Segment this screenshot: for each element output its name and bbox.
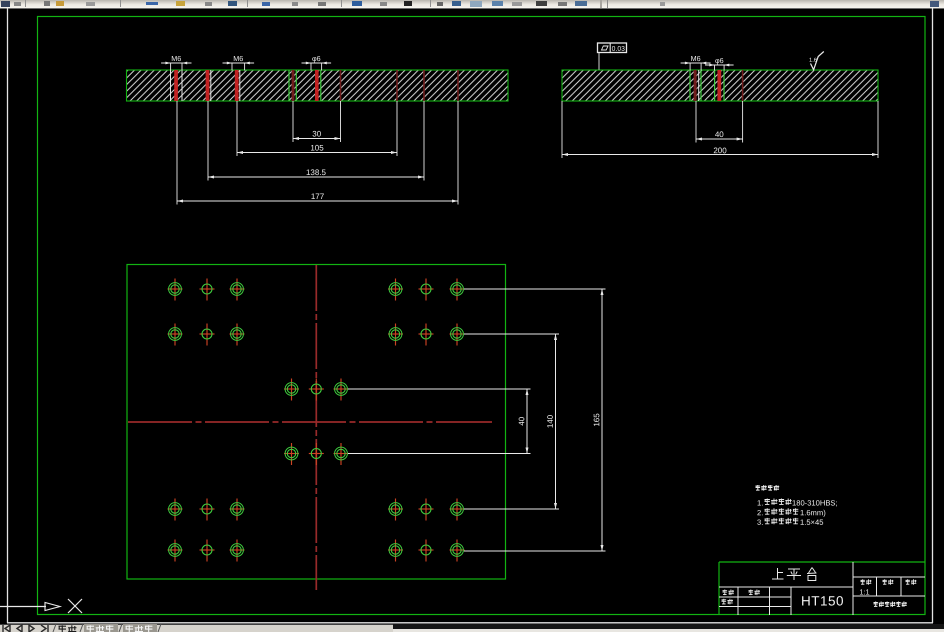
- dim 138.5: [207, 101, 209, 181]
- title block frame: [718, 562, 720, 615]
- thread dim M6 #1: [170, 63, 172, 71]
- dim 40 right: [695, 101, 697, 143]
- layout tab strip: [0, 624, 393, 632]
- svg-text:180-310HBS;: 180-310HBS;: [792, 499, 838, 508]
- flatness tolerance frame: [598, 43, 627, 53]
- dim 177: [176, 101, 178, 205]
- label bili: [861, 579, 865, 584]
- right section plate: [562, 70, 878, 101]
- svg-text:138.5: 138.5: [306, 168, 327, 177]
- dim 40 vertical: [348, 388, 531, 390]
- label jianshu: [883, 579, 887, 584]
- svg-text:M6: M6: [171, 54, 181, 63]
- svg-text:165: 165: [592, 413, 601, 427]
- dim 140 vertical: [464, 333, 559, 335]
- svg-text:0.03: 0.03: [612, 46, 625, 53]
- svg-text:3.: 3.: [757, 518, 763, 527]
- hole group bottom-left: [168, 499, 183, 521]
- svg-text:40: 40: [715, 130, 724, 139]
- school name: [874, 602, 878, 607]
- svg-text:1:1: 1:1: [859, 587, 869, 596]
- right section holes: [689, 70, 691, 101]
- svg-text:140: 140: [546, 414, 555, 428]
- left section hole lines: [170, 70, 172, 101]
- hole group center: [284, 379, 299, 401]
- left section plate: [127, 70, 509, 101]
- paper border white lines: [7, 8, 9, 623]
- horizontal centerline: [128, 421, 492, 423]
- dim 165 vertical: [464, 288, 606, 290]
- hole dim phi6 right: [714, 65, 716, 71]
- vertical centerline: [315, 265, 317, 590]
- title text shang ping tai: [772, 568, 817, 581]
- scrollbar trough right of tabs: [393, 624, 944, 629]
- toolbar strip (cut-off icon bottoms): [0, 0, 944, 9]
- plan view square: [127, 265, 506, 580]
- label zhitu: [723, 590, 728, 596]
- svg-text:M6: M6: [233, 54, 243, 63]
- label shenhe: [722, 599, 727, 605]
- nav buttons + layout tabs: [0, 624, 400, 632]
- svg-text:M6: M6: [691, 54, 701, 63]
- thread dim M6 right: [689, 63, 691, 71]
- hole group bottom-right: [388, 499, 403, 521]
- svg-text:1.: 1.: [757, 499, 763, 508]
- label zhongliang: [906, 579, 910, 584]
- svg-text:40: 40: [517, 416, 526, 425]
- technical requirements: [756, 485, 761, 491]
- svg-text:177: 177: [311, 192, 325, 201]
- surface roughness symbol: [811, 52, 824, 70]
- name: [749, 590, 754, 596]
- dim 200: [561, 101, 563, 158]
- svg-text:1.6mm): 1.6mm): [800, 508, 826, 517]
- UCS icon X axis: [0, 606, 46, 608]
- svg-text:HT150: HT150: [801, 593, 844, 608]
- hole group top-right: [388, 279, 403, 301]
- svg-text:φ6: φ6: [312, 54, 321, 63]
- svg-text:1.6: 1.6: [809, 57, 817, 64]
- title block inner lines: [852, 562, 854, 615]
- dim 30: [292, 101, 294, 142]
- svg-text:30: 30: [312, 129, 321, 138]
- thread dim M6 #2: [231, 63, 233, 71]
- hole group top-left: [168, 279, 183, 301]
- svg-text:1.5×45: 1.5×45: [800, 518, 823, 527]
- hole dim phi6 #3: [310, 63, 312, 71]
- svg-text:φ6: φ6: [715, 56, 724, 65]
- svg-text:105: 105: [310, 143, 324, 152]
- dim 105: [236, 101, 238, 156]
- svg-text:2.: 2.: [757, 508, 763, 517]
- svg-text:200: 200: [713, 146, 727, 155]
